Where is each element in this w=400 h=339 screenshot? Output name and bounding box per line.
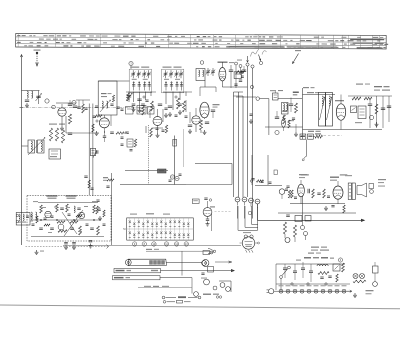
table cell text — [17, 42, 21, 43]
table column line — [17, 34, 19, 47]
table cell text — [314, 37, 319, 38]
tuner tube V14 — [58, 224, 64, 230]
gang row box a — [126, 107, 134, 115]
switch contact tick — [147, 226, 149, 228]
switch column — [165, 218, 167, 240]
tuning capacitor C30 — [128, 92, 130, 103]
switch contact — [169, 221, 171, 224]
parts below V9 — [331, 205, 334, 207]
table row line — [16, 44, 386, 46]
table cell text — [342, 47, 345, 48]
tuner diagonal wire — [64, 210, 83, 236]
wire — [340, 95, 342, 104]
label rows — [311, 247, 319, 248]
capacitor C17 — [289, 103, 293, 105]
node circle Z3 — [256, 97, 260, 101]
IF can T6 — [196, 69, 205, 81]
resistor R4 — [68, 114, 71, 124]
electrolytic capacitor — [235, 197, 240, 202]
legend line 2 — [163, 301, 166, 304]
resistor R9 — [183, 101, 186, 112]
tube label — [279, 285, 284, 286]
dense component row box a — [300, 134, 306, 139]
volume potentiometer P2 — [90, 149, 95, 156]
capacitor C8c — [145, 99, 148, 101]
right column parts — [373, 266, 379, 273]
switch contact — [151, 223, 153, 226]
wire shaft — [111, 173, 113, 245]
table cell text — [236, 40, 240, 41]
dial scale bar C — [113, 276, 161, 280]
table cell text — [306, 40, 311, 41]
switch label — [130, 214, 137, 215]
switch contact — [142, 223, 144, 226]
switch column — [147, 218, 149, 240]
table cell text — [46, 39, 50, 40]
switch contact — [160, 221, 162, 224]
circled digit 3 — [129, 61, 133, 65]
riser bottom parts — [169, 179, 172, 181]
tuner node dots — [40, 219, 42, 221]
wire — [195, 124, 197, 132]
table cell text — [129, 42, 134, 43]
B+ bus wire 3 — [242, 96, 244, 197]
node circle top b — [239, 65, 242, 68]
B+ bus wire 1 — [233, 92, 235, 197]
rectifier parts — [333, 264, 340, 271]
coil in box — [102, 101, 103, 108]
wire — [303, 94, 336, 96]
table cell text — [147, 39, 150, 40]
table column line — [168, 34, 170, 47]
wire — [337, 181, 339, 186]
tube label — [342, 285, 347, 286]
label — [355, 122, 362, 123]
switch contact tick — [142, 226, 144, 228]
switch contact — [178, 221, 180, 224]
switch column — [129, 218, 131, 240]
tube V2 — [153, 117, 162, 126]
left cluster parts — [121, 136, 124, 138]
wire — [237, 206, 239, 219]
wire — [369, 106, 371, 129]
table cell text — [53, 39, 58, 40]
parts below tuner box 2 — [89, 240, 93, 242]
right subtable dark text — [350, 38, 384, 40]
mixer extra parts — [77, 106, 80, 108]
table cell text — [201, 43, 206, 44]
table cell text — [219, 36, 222, 37]
table cell text — [37, 42, 42, 43]
switch contact — [129, 221, 131, 224]
oscillator box T3 — [98, 81, 117, 115]
label — [164, 79, 169, 80]
table column line — [145, 34, 147, 47]
capacitor C23 — [96, 150, 98, 154]
label — [296, 260, 301, 261]
table cell text — [37, 45, 41, 46]
resistor R1 — [49, 128, 52, 141]
IF transformer T4 — [129, 69, 151, 93]
switch contact tick — [165, 226, 167, 228]
label right of V12 — [210, 206, 215, 207]
wire FM bus — [302, 88, 304, 139]
connector bottom — [203, 251, 210, 255]
wire — [195, 163, 232, 165]
scale B text — [116, 270, 125, 272]
switch contact tick — [133, 226, 135, 228]
shield dotted wire — [147, 125, 149, 185]
coil L2 — [32, 91, 33, 98]
wire — [302, 220, 304, 225]
vertical cord — [181, 251, 183, 275]
capacitor C2 — [25, 99, 29, 101]
band switch S1 frame — [127, 218, 194, 240]
table cell text — [28, 45, 33, 46]
B+ bus wire 5 — [252, 68, 254, 219]
parts above V12 — [204, 197, 207, 199]
scale C cord — [160, 277, 192, 279]
heater tube symbol — [342, 289, 346, 293]
bus step wire 4 — [257, 207, 259, 221]
table cell text — [70, 45, 72, 46]
bus jog wire — [234, 95, 244, 97]
table column line — [360, 35, 362, 48]
capacitor C14c — [234, 83, 237, 85]
table cell text — [372, 44, 377, 45]
balun internals — [19, 214, 20, 221]
bus step wire 2 — [245, 206, 258, 227]
power switch — [280, 276, 283, 279]
table cell text — [336, 47, 338, 48]
node circle 3 — [200, 61, 204, 65]
parts row mid — [251, 178, 254, 180]
node circle 1 — [45, 99, 49, 103]
wire — [276, 263, 345, 265]
table cell text — [312, 47, 317, 48]
resistor R11 — [200, 120, 203, 130]
trimmer cap in T4 — [132, 70, 134, 78]
wire antenna bus — [21, 55, 23, 245]
table cell text — [89, 35, 94, 36]
switch contact tick — [138, 226, 140, 228]
antenna arrow — [20, 55, 22, 58]
switch contact tick — [151, 226, 153, 228]
coupling parts — [307, 189, 309, 193]
table cell text — [145, 43, 147, 44]
wire — [204, 118, 206, 119]
table cell text — [380, 44, 383, 45]
scale B cord — [161, 270, 232, 272]
table column line — [235, 35, 237, 48]
table cell text — [357, 37, 361, 38]
dense component row resistor — [315, 135, 323, 138]
wire — [185, 100, 187, 112]
table cell text — [193, 43, 199, 44]
FM input side parts — [96, 199, 99, 201]
trimmer cap in T4 — [148, 70, 150, 78]
table cell text — [208, 36, 211, 37]
table cell text — [33, 35, 35, 36]
table column line — [213, 35, 215, 48]
table cell text — [167, 39, 170, 40]
switch terminal circled number — [184, 242, 188, 246]
resistor R2 — [55, 128, 58, 141]
table cell text — [219, 39, 221, 40]
pilot lamp PL2 — [360, 274, 365, 279]
wire — [278, 98, 302, 100]
wire — [66, 132, 99, 134]
bus step wire 3 — [252, 206, 258, 224]
switch contact — [174, 221, 176, 224]
wire — [211, 214, 213, 231]
table cell text — [231, 40, 233, 41]
annotation arrow — [293, 54, 299, 64]
switch terminal circled number — [164, 242, 168, 246]
table cell text — [95, 39, 98, 40]
switch mid rail — [127, 228, 194, 230]
parts left cluster — [84, 175, 87, 177]
table cell text — [252, 43, 256, 44]
switch contact tick — [187, 226, 189, 228]
table cell text — [281, 47, 285, 48]
table cell text — [123, 36, 128, 37]
box component Z1 — [49, 149, 61, 159]
table cell text — [103, 42, 107, 43]
circled node — [248, 211, 252, 215]
small parts right of Z2 — [241, 71, 244, 73]
parts mid shaft — [103, 135, 106, 137]
table cell text — [39, 39, 44, 40]
table cell text — [69, 35, 71, 36]
trimmer cap row2 in T4 — [133, 82, 135, 91]
wire — [251, 155, 253, 185]
resistor R23 — [353, 280, 366, 283]
detector diode box Z5 — [351, 106, 357, 113]
switch column — [138, 218, 140, 240]
cluster parts — [110, 131, 114, 133]
output transformer T8 — [348, 183, 351, 200]
table cell text — [253, 36, 257, 37]
table cell text — [247, 40, 250, 41]
wire — [22, 145, 29, 147]
table cell text — [259, 40, 265, 41]
label — [374, 90, 380, 91]
label filter — [304, 257, 311, 259]
table cell text — [131, 36, 135, 37]
tuner tube V10 — [45, 211, 51, 217]
switch column — [156, 218, 158, 240]
wire — [126, 91, 156, 93]
riser with hook — [306, 140, 308, 157]
IF transformer T5 — [162, 69, 184, 93]
switch column — [160, 218, 162, 240]
wire — [149, 109, 151, 118]
table cell text — [383, 47, 385, 48]
ground with label — [36, 250, 38, 252]
wire — [65, 116, 67, 133]
cluster below IF can F — [84, 107, 87, 109]
tube label — [286, 285, 291, 286]
tuner parts row — [40, 205, 43, 213]
wire — [302, 196, 304, 220]
trimmer cap in T5 — [170, 70, 172, 78]
table cell text — [296, 43, 299, 44]
table cell text — [250, 36, 252, 37]
table cell text — [22, 35, 26, 36]
table cell text — [29, 35, 32, 36]
switch contact tick — [129, 226, 131, 228]
scale C text — [114, 277, 124, 279]
wire — [204, 81, 206, 88]
capacitor C19 — [368, 103, 372, 105]
tone control wire — [278, 212, 356, 214]
tube label — [328, 285, 333, 286]
B+ bus wire 2 — [238, 92, 240, 197]
wire — [163, 91, 192, 93]
switch column — [183, 218, 185, 240]
heater chain wire — [274, 290, 352, 292]
table cell text — [118, 46, 124, 47]
dial scale bar B — [114, 269, 161, 273]
wire — [276, 283, 350, 285]
coupling box Z3 — [273, 93, 279, 100]
tube label — [293, 285, 298, 286]
label — [163, 67, 172, 68]
diode D2 — [175, 176, 179, 180]
dark label — [293, 92, 299, 94]
table cell text — [194, 39, 196, 40]
table cell text — [350, 44, 355, 45]
wire — [125, 170, 168, 172]
detector riser wire — [174, 136, 176, 185]
switch contact tick — [174, 226, 176, 228]
wire — [103, 128, 105, 133]
tube V6 — [200, 102, 209, 118]
FM tuner shield box — [27, 196, 111, 242]
table cell text — [123, 42, 125, 43]
table cell text — [267, 40, 273, 41]
pulley 2 — [204, 279, 210, 285]
table cell text — [254, 46, 259, 47]
table cell text — [102, 35, 108, 36]
table cell text — [363, 40, 367, 41]
table cell text — [151, 43, 154, 44]
table cell text — [348, 40, 354, 41]
table cell text — [59, 39, 61, 40]
table cell text — [203, 36, 206, 37]
parts on shaft — [106, 185, 109, 187]
electrolytic vertical — [282, 119, 286, 128]
resistor R6 — [127, 93, 130, 101]
trimmer cap — [207, 68, 209, 76]
switch column — [169, 218, 171, 240]
label — [345, 175, 352, 176]
table cell text — [81, 45, 84, 46]
tube V8 AF amp — [298, 184, 305, 197]
page bottom edge — [0, 305, 400, 309]
tuner bottom parts — [39, 227, 43, 229]
test point arrow TP1 — [247, 56, 249, 62]
antenna symbol — [36, 54, 38, 67]
table cell text — [320, 47, 323, 48]
table cell text — [72, 39, 77, 40]
long chassis wire — [63, 244, 241, 246]
label — [299, 174, 307, 175]
table cell text — [84, 42, 87, 43]
switch contact — [187, 223, 189, 226]
table cell text — [119, 39, 121, 40]
wire — [165, 92, 167, 105]
table cell text — [283, 40, 287, 41]
left small parts — [250, 113, 253, 115]
table cell text — [288, 47, 291, 48]
table cell text — [160, 39, 164, 40]
parts below V12 — [207, 217, 209, 220]
output cathode wire — [290, 203, 345, 205]
table cell text — [80, 35, 86, 36]
trimmer cap in T4 — [143, 70, 145, 78]
ground — [354, 293, 356, 295]
trimmer cap row2 in T5 — [171, 82, 173, 91]
capacitor C20 — [381, 107, 385, 109]
node circle — [275, 130, 279, 134]
tube label — [300, 285, 305, 286]
parts left of V8 — [286, 185, 289, 187]
capacitor C16 — [211, 109, 215, 111]
small parts row y115 — [175, 114, 178, 116]
resistor R8 — [177, 98, 180, 109]
label — [308, 131, 314, 132]
table cell text — [300, 40, 305, 41]
capacitor C11c — [164, 107, 167, 109]
choke L5 — [317, 265, 328, 266]
switch contact tick — [169, 226, 171, 228]
table column line — [300, 35, 302, 48]
table cell text — [215, 46, 220, 47]
tube V5 — [219, 68, 226, 81]
tuner fine parts 2 — [44, 224, 50, 226]
table cell text — [227, 43, 230, 44]
table cell text — [286, 43, 288, 44]
table cell text — [380, 37, 384, 38]
table cell text — [167, 36, 171, 37]
wire — [236, 96, 256, 98]
wire volume bus — [88, 104, 90, 196]
table cell text — [377, 40, 380, 41]
dial pointer bar — [128, 259, 166, 265]
circled digit — [338, 258, 342, 262]
capacitor C5 — [73, 105, 77, 107]
table cell text — [357, 40, 361, 41]
table cell text — [136, 39, 139, 40]
scale B marks — [151, 270, 158, 271]
variable capacitor C1 — [38, 91, 40, 105]
table cell text — [344, 44, 347, 45]
switch column — [133, 218, 135, 240]
capacitor C8 — [137, 98, 141, 100]
resistor R22 — [318, 272, 329, 275]
coil T1 — [28, 140, 35, 153]
table cell text — [377, 47, 380, 48]
wire — [133, 92, 135, 103]
dashed wire below — [26, 246, 109, 248]
pointer cord — [167, 261, 203, 263]
table cell text — [331, 47, 333, 48]
row caps — [116, 106, 119, 108]
wire — [300, 180, 302, 184]
switch column — [187, 218, 189, 240]
